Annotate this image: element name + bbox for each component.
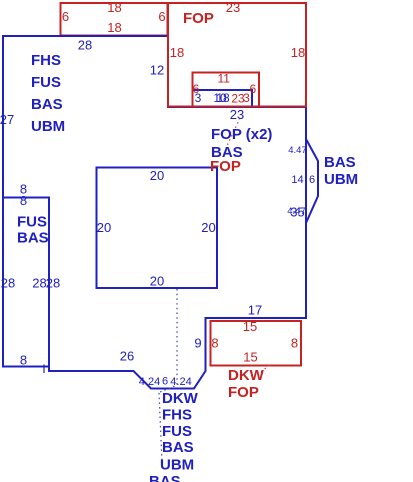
svg-text:BAS: BAS: [17, 230, 49, 247]
svg-text:18: 18: [107, 20, 121, 35]
svg-text:26: 26: [120, 349, 134, 364]
svg-text:DKW: DKW: [228, 367, 265, 384]
svg-text:23: 23: [230, 107, 244, 122]
svg-text:4.24: 4.24: [170, 376, 191, 388]
svg-text:28: 28: [1, 276, 15, 291]
svg-text:DKW: DKW: [162, 390, 199, 407]
svg-text:35: 35: [290, 205, 304, 220]
svg-text:FUS: FUS: [162, 423, 192, 440]
svg-text:28: 28: [78, 38, 92, 53]
svg-text:20: 20: [150, 274, 164, 289]
svg-text:6: 6: [62, 9, 69, 24]
svg-text:BAS: BAS: [324, 154, 356, 171]
svg-text:FHS: FHS: [31, 52, 61, 69]
svg-text:18: 18: [216, 91, 230, 105]
svg-text:4.47: 4.47: [288, 145, 307, 156]
svg-text:15: 15: [243, 350, 257, 365]
svg-text:UBM: UBM: [324, 171, 358, 188]
svg-text:11: 11: [217, 72, 230, 86]
svg-text:8: 8: [20, 193, 27, 208]
svg-text:6: 6: [309, 174, 315, 186]
svg-text:17: 17: [248, 303, 262, 318]
svg-text:9: 9: [194, 336, 201, 351]
svg-text:6: 6: [249, 82, 256, 96]
svg-text:FOP: FOP: [183, 10, 214, 27]
svg-text:6: 6: [162, 376, 168, 388]
svg-text:28: 28: [46, 276, 60, 291]
svg-text:8: 8: [20, 353, 27, 368]
svg-text:FUS: FUS: [31, 74, 61, 91]
svg-text:BAS: BAS: [31, 96, 63, 113]
svg-text:FUS: FUS: [17, 214, 47, 231]
svg-text:28: 28: [32, 276, 46, 291]
svg-text:FOP (x2): FOP (x2): [211, 126, 272, 143]
svg-text:18: 18: [170, 45, 184, 60]
svg-text:UBM: UBM: [31, 118, 65, 135]
svg-text:20: 20: [150, 168, 164, 183]
svg-text:4.24: 4.24: [139, 376, 160, 388]
svg-text:6: 6: [158, 9, 165, 24]
svg-text:14: 14: [291, 174, 303, 186]
svg-text:UBM: UBM: [160, 457, 194, 474]
svg-text:FHS: FHS: [162, 406, 192, 423]
svg-text:23: 23: [226, 0, 240, 15]
svg-text:FOP: FOP: [228, 384, 259, 401]
svg-text:18: 18: [107, 0, 121, 15]
svg-text:27: 27: [0, 112, 14, 127]
svg-text:3: 3: [243, 91, 250, 105]
svg-text:BAS: BAS: [162, 439, 194, 456]
svg-text:20: 20: [201, 220, 215, 235]
svg-text:18: 18: [291, 45, 305, 60]
svg-text:15: 15: [243, 319, 257, 334]
svg-text:8: 8: [211, 336, 218, 351]
svg-text:12: 12: [150, 63, 164, 78]
svg-text:20: 20: [97, 220, 111, 235]
svg-text:BAS: BAS: [149, 473, 181, 482]
svg-text:FOP: FOP: [210, 158, 241, 175]
svg-text:3: 3: [195, 91, 202, 105]
svg-text:8: 8: [291, 336, 298, 351]
